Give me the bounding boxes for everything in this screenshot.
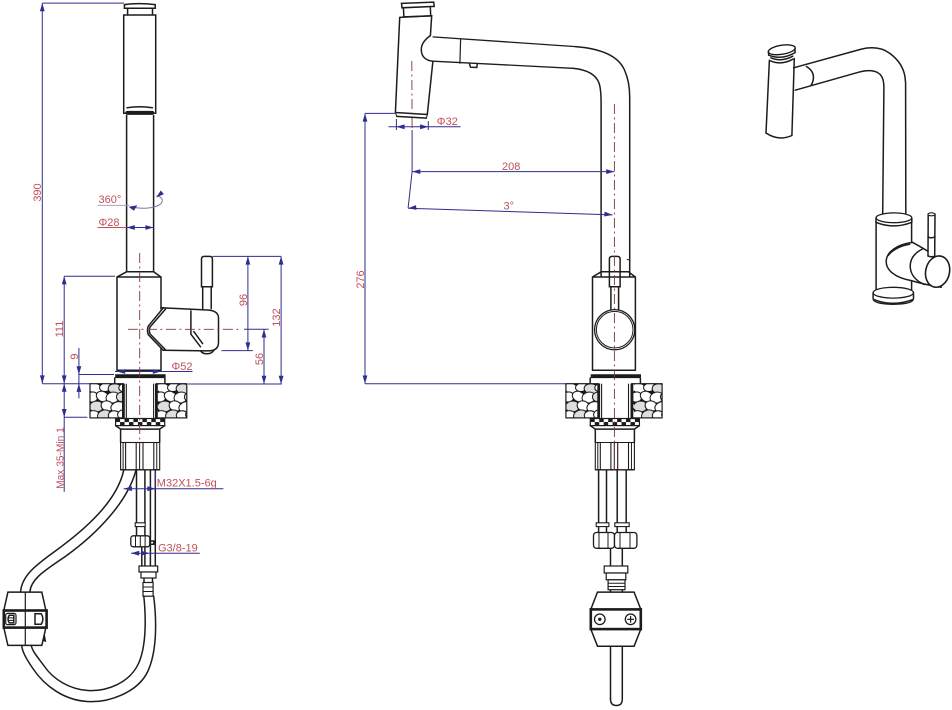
dimension phi52 xyxy=(115,361,193,374)
3d view: knob top silhouette xyxy=(913,242,935,255)
side view: handle ball joint xyxy=(595,310,635,350)
dimension phi28 xyxy=(98,217,154,230)
dimension 96 xyxy=(212,256,281,350)
svg-text:Φ52: Φ52 xyxy=(172,361,193,373)
svg-text:96: 96 xyxy=(238,294,250,306)
center hose tube (side view) xyxy=(611,548,623,566)
3d view: handle rod xyxy=(928,213,935,257)
pull-out hose upper curve (front view) xyxy=(21,470,124,592)
dimension 276 xyxy=(355,113,565,383)
svg-text:208: 208 xyxy=(502,161,520,173)
front view: faucet body xyxy=(117,272,161,371)
svg-text:9: 9 xyxy=(69,353,81,359)
dimension phi32 xyxy=(389,116,461,130)
splined thread section (front view) xyxy=(121,443,160,470)
front view: valve housing cone xyxy=(147,308,205,351)
front view: base flange xyxy=(115,376,166,384)
centerline riser axis (side view) xyxy=(613,104,615,470)
svg-text:G3/8-19: G3/8-19 xyxy=(158,543,198,555)
side view: handle lever xyxy=(609,256,629,309)
hose end below weight (side view) xyxy=(611,646,623,705)
dimension 56 xyxy=(188,329,282,384)
3d view: knob bottom silhouette xyxy=(911,281,941,288)
svg-text:3°: 3° xyxy=(504,200,515,212)
3d view: knob face xyxy=(922,254,952,290)
front view: outlet aerator bump xyxy=(201,351,214,354)
svg-text:56: 56 xyxy=(254,353,266,365)
3d view: valve housing dome xyxy=(886,242,940,286)
dimension G3/8-19 xyxy=(131,543,200,556)
svg-text:132: 132 xyxy=(271,308,283,326)
shank through countertop (front view) xyxy=(126,384,153,419)
quick-connect fitting (front view) xyxy=(139,566,158,596)
side view: spray head cap xyxy=(402,2,435,17)
3d view: base flange xyxy=(873,287,913,304)
3d view: body collar xyxy=(876,213,912,226)
svg-text:360°: 360° xyxy=(99,194,122,206)
locknut checker band (front view) xyxy=(116,419,165,426)
dimension 208 xyxy=(412,130,614,174)
side view: spray head body xyxy=(395,16,433,118)
side view: bend inner curve xyxy=(573,68,602,276)
dimension 390 xyxy=(32,3,124,384)
svg-text:276: 276 xyxy=(355,270,367,288)
front view: spray head cap xyxy=(124,4,155,15)
supply tubes (side view) xyxy=(594,470,637,548)
svg-text:M32X1.5-6g: M32X1.5-6g xyxy=(157,478,217,490)
supply tube with G3/8 nut (front view) xyxy=(131,470,154,567)
centerline horizontal (front view) xyxy=(128,328,242,330)
front view: spray head body xyxy=(124,15,156,113)
shank tube (side view) xyxy=(595,429,634,442)
counterweight block (front view) xyxy=(4,592,47,645)
shank through countertop (side view) xyxy=(602,384,629,419)
side view: bend outer curve xyxy=(576,47,630,276)
side view: pause button notch xyxy=(470,64,478,68)
360 degree rotation symbol xyxy=(98,191,164,211)
front view: handle rod xyxy=(202,256,213,308)
3d view: spray head cap xyxy=(768,43,796,63)
shank tube (front view) xyxy=(121,429,160,442)
centerline vertical (front view) xyxy=(139,253,141,446)
front view: valve housing cap xyxy=(161,308,219,351)
locknut cone (side view) xyxy=(590,426,639,430)
svg-text:390: 390 xyxy=(32,183,44,201)
3d view: body cylinder xyxy=(876,222,912,290)
centerline head axis (side view) xyxy=(411,61,413,131)
countertop left block (front view) xyxy=(90,384,123,418)
side view: spout arm bottom edge xyxy=(433,61,573,68)
front view: spout pipe xyxy=(127,115,154,272)
3d view: spout arm xyxy=(794,48,906,213)
svg-text:Max 35-Min 1: Max 35-Min 1 xyxy=(55,427,66,489)
dimension Max 35-Min 1 xyxy=(55,384,87,492)
countertop left block (side view) xyxy=(566,384,599,418)
dimension 3 degrees xyxy=(408,172,612,217)
3d view: swivel joint arc xyxy=(806,67,813,86)
svg-text:Φ32: Φ32 xyxy=(437,116,458,128)
splined thread section (side view) xyxy=(595,443,634,470)
dimension M32X1.5-6g xyxy=(124,471,224,491)
pull-out hose lower loop (front view) xyxy=(22,596,156,701)
3d view: spray head body xyxy=(766,59,794,138)
countertop right block (side view) xyxy=(632,384,662,418)
counterweight block (side view) xyxy=(591,592,641,646)
pull-out hose guide tube (front view) xyxy=(150,470,155,566)
side view: base flange xyxy=(590,376,641,384)
countertop right block (front view) xyxy=(156,384,187,418)
side view: arm joint seam xyxy=(459,39,462,64)
svg-text:111: 111 xyxy=(54,321,66,338)
locknut cone (front view) xyxy=(116,426,165,430)
dimension 111 xyxy=(54,276,115,383)
dimension 9 xyxy=(69,348,114,398)
dimension 132 xyxy=(271,256,283,384)
locknut checker band (side view) xyxy=(590,419,639,426)
side view: spout arm top edge xyxy=(433,37,576,47)
quick-connect fitting (side view) xyxy=(604,566,628,592)
side view: swivel boss xyxy=(421,36,433,62)
side view: faucet body xyxy=(593,272,636,371)
3d view: knob back rim xyxy=(910,249,924,285)
